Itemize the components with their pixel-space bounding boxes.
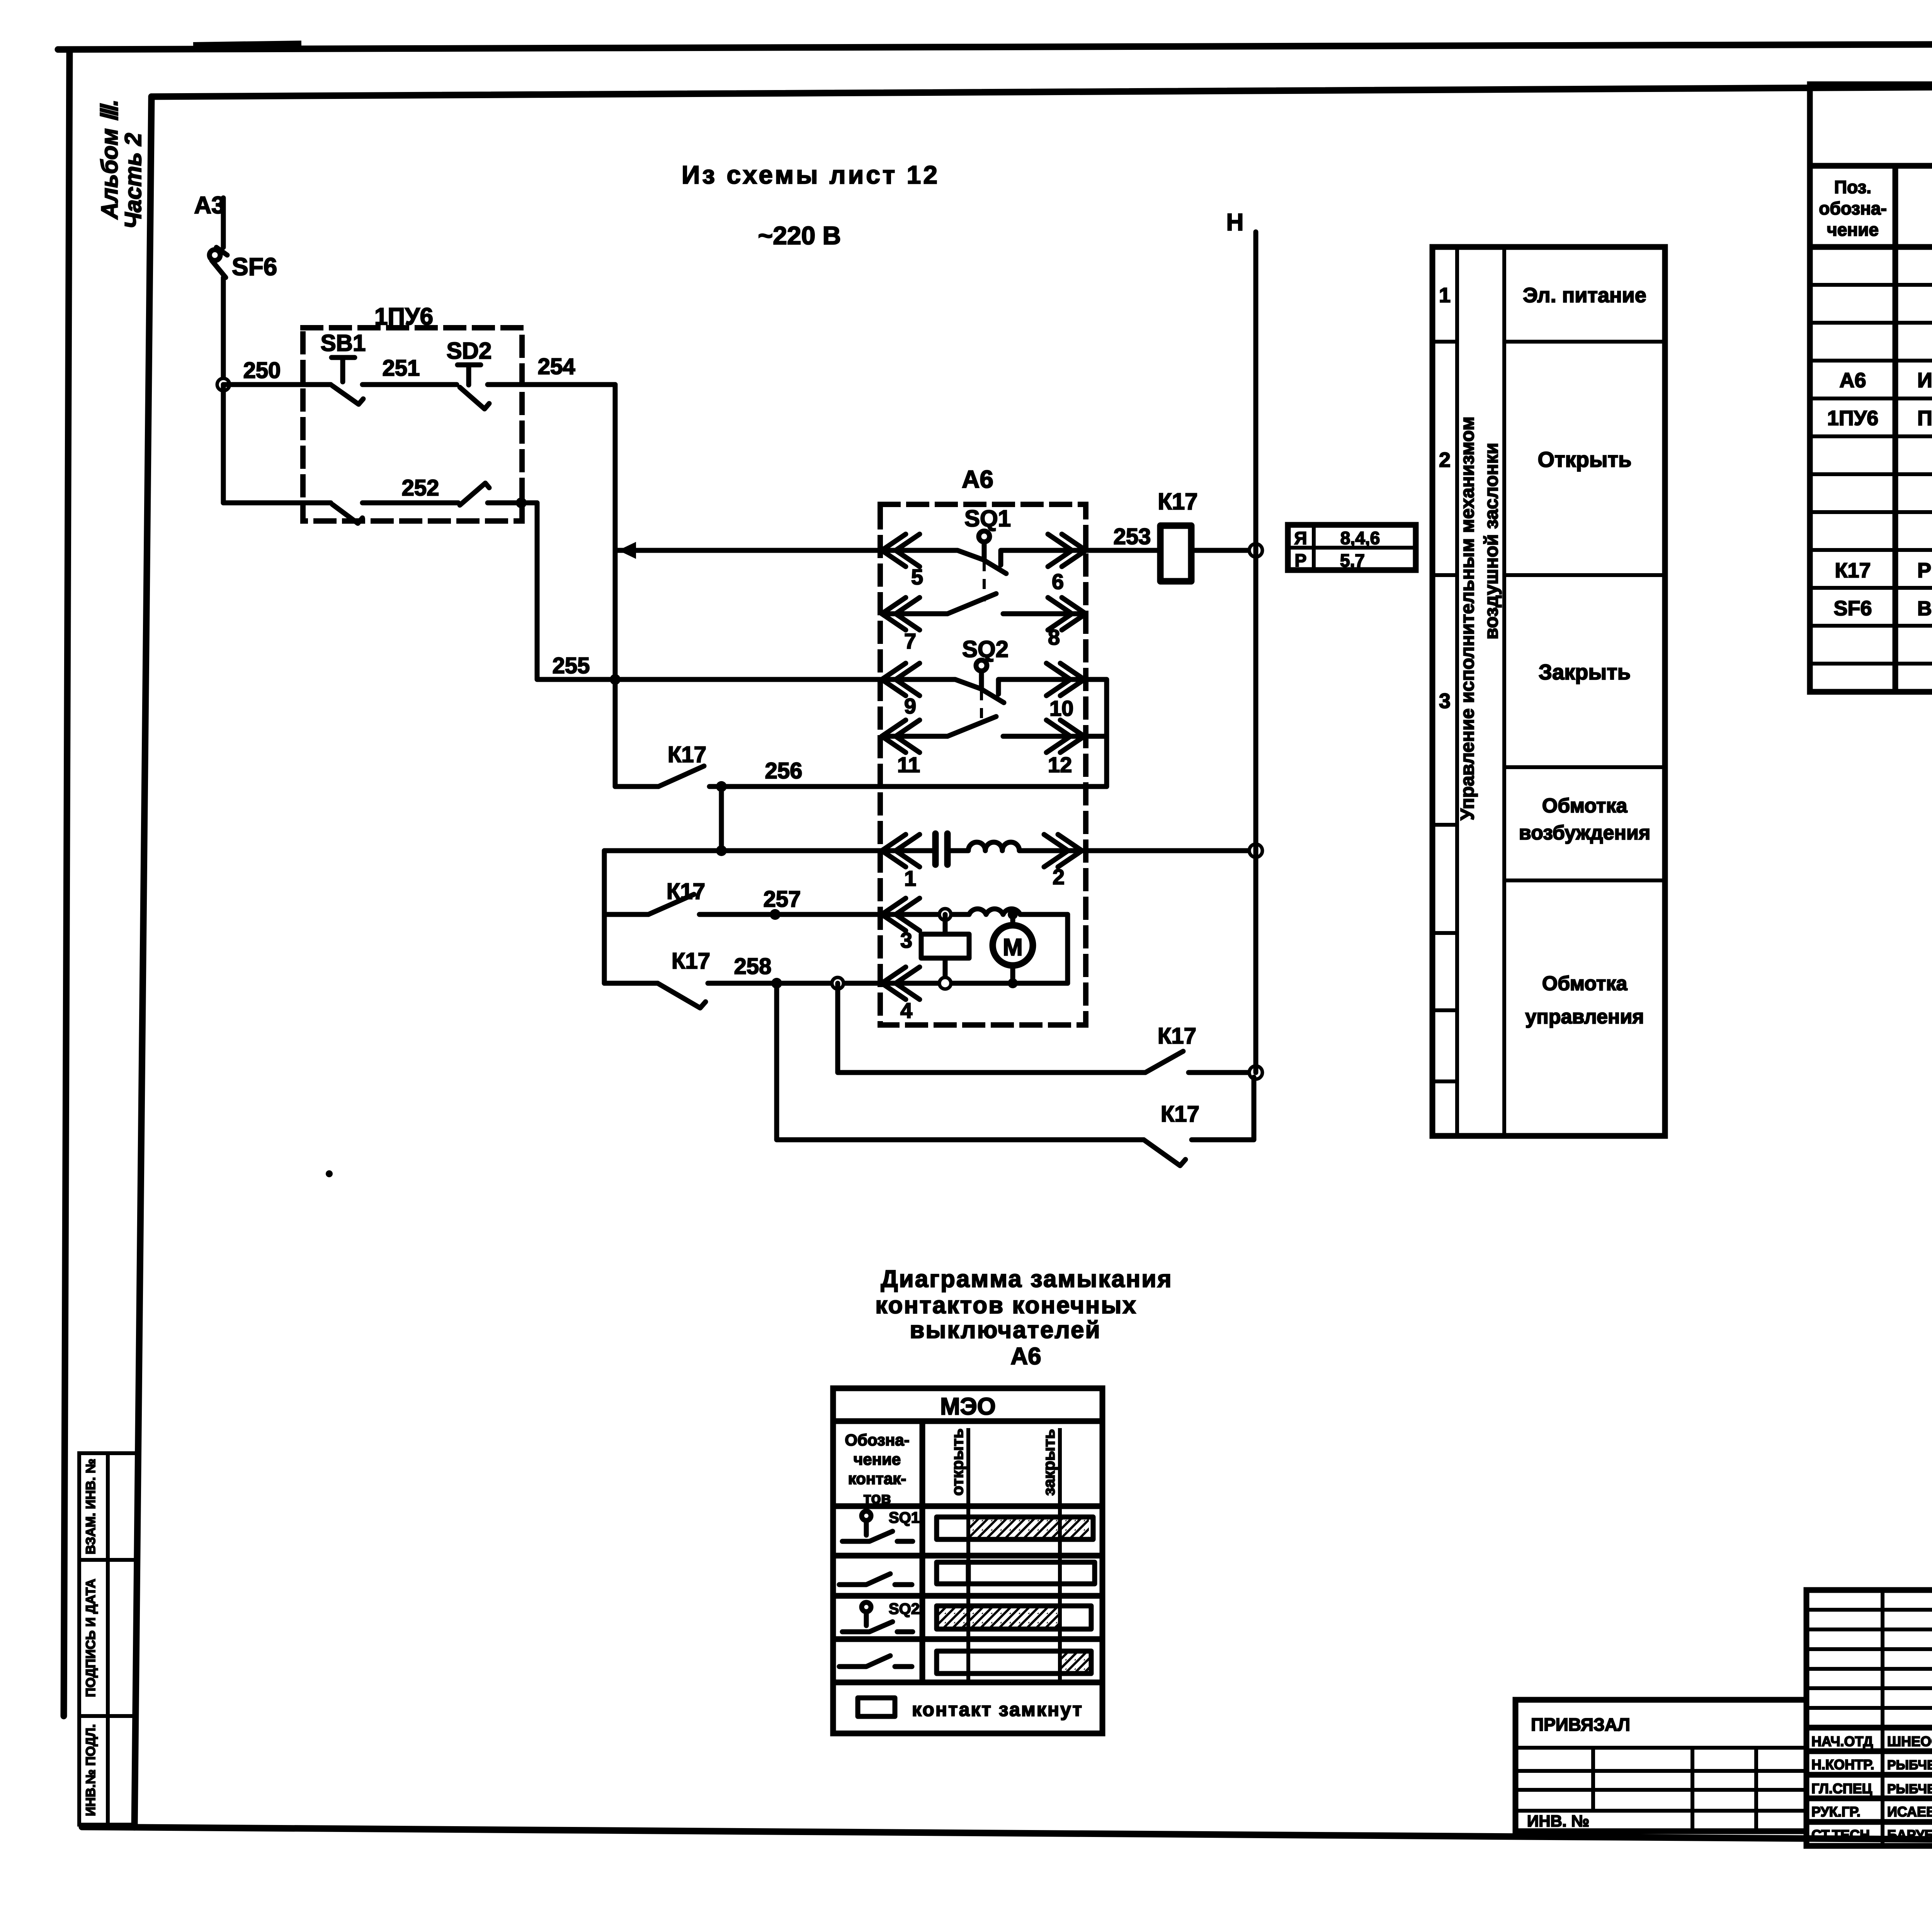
svg-text:8,4,6: 8,4,6 [1340, 528, 1380, 548]
svg-text:Обмотка: Обмотка [1542, 795, 1628, 817]
resistor R [921, 914, 969, 983]
svg-text:Эл. питание: Эл. питание [1523, 284, 1646, 307]
svg-text:ИСАЕВА: ИСАЕВА [1887, 1804, 1932, 1820]
wire 252 right [488, 501, 537, 506]
svg-text:SF6: SF6 [232, 253, 277, 281]
svg-text:Реле РПУ2-М36440УЗБ ~220 В: Реле РПУ2-М36440УЗБ ~220 В [1917, 559, 1932, 582]
svg-text:Обмотка: Обмотка [1542, 972, 1628, 995]
pin 10 chevron [1046, 663, 1084, 696]
svg-text:10: 10 [1049, 696, 1073, 720]
svg-text:РУК.ГР.: РУК.ГР. [1811, 1804, 1861, 1820]
svg-text:РЫБЧЕНКО: РЫБЧЕНКО [1887, 1782, 1932, 1796]
contact SB2 lower blade [460, 483, 489, 505]
svg-text:Альбом Ⅲ.: Альбом Ⅲ. [97, 99, 122, 220]
element list table (Перечень элементов) [1810, 84, 1932, 692]
inductor L row6 [969, 909, 1068, 914]
strip label Обмотка возбуждения [1519, 795, 1650, 844]
svg-text:Н.КОНТР.: Н.КОНТР. [1811, 1757, 1874, 1772]
contact K17 (wire 256) [658, 766, 704, 787]
wire drop row7 to K17 row A [838, 983, 1145, 1073]
wire row5 to N [1082, 848, 1255, 853]
motor loop right side [1065, 914, 1070, 983]
signature row Гл.спец [1811, 1779, 1932, 1796]
svg-text:закрыть: закрыть [1040, 1429, 1058, 1496]
column line закрыть [1058, 1430, 1062, 1682]
limit switch SQ1 actuator [979, 531, 990, 559]
frame inner top border [151, 83, 1932, 97]
contact SQ2 row4 blade [947, 717, 996, 736]
pushbutton SB1 (NC) [332, 358, 363, 404]
svg-text:9: 9 [904, 694, 916, 718]
contact symbol SQ2 row [842, 1600, 920, 1632]
wire 250 [223, 382, 331, 387]
svg-text:Выключатель А63-МУЗ Iр-6,3 А: Выключатель А63-МУЗ Iр-6,3 А Iотс.-1,5 I… [1917, 598, 1932, 620]
svg-text:1ПУ6: 1ПУ6 [374, 303, 433, 330]
svg-text:Р: Р [1295, 550, 1307, 570]
wire row4 right [1003, 734, 1107, 739]
wire 254 [488, 382, 615, 387]
svg-text:Диаграмма замыкания: Диаграмма замыкания [881, 1266, 1172, 1292]
svg-text:1: 1 [1439, 284, 1451, 307]
svg-text:256: 256 [765, 758, 803, 783]
scan speck [326, 1170, 333, 1177]
wire row7 left [604, 981, 658, 986]
svg-text:ШНЕОСОД: ШНЕОСОД [1887, 1733, 1932, 1749]
circuit breaker SF6 [209, 247, 227, 278]
strip label Обмотка управления [1525, 972, 1644, 1028]
pin 3 chevron [882, 898, 920, 931]
svg-text:Управление исполнительным: Управление исполнительным механизмом [1457, 417, 1478, 821]
node junction 257 [770, 909, 781, 920]
svg-text:Пост управления ПКЕ 222-2УЗ: Пост управления ПКЕ 222-2УЗ [1917, 407, 1932, 430]
svg-text:выключателей: выключателей [910, 1317, 1101, 1343]
wire row1 to box [615, 548, 882, 553]
node branch arrow row 1 [618, 542, 636, 559]
svg-text:БАРУБИН: БАРУБИН [1887, 1827, 1932, 1843]
wire 256 left [615, 784, 658, 789]
pin 12 chevron [1046, 720, 1084, 752]
closure bar row 3 [937, 1606, 1091, 1629]
svg-text:11: 11 [897, 752, 920, 777]
pin 1 chevron [882, 834, 920, 867]
svg-text:А6: А6 [962, 465, 993, 493]
pin 11 chevron [882, 720, 920, 752]
node motor bottom [1008, 978, 1018, 988]
wire 258 [708, 981, 1068, 986]
svg-text:обозна-: обозна- [1819, 198, 1887, 218]
SQ1 link rod (dash) [983, 561, 986, 601]
closure diagram table МЭО [833, 1388, 1102, 1733]
svg-text:250: 250 [243, 358, 281, 383]
svg-text:~220 В: ~220 В [758, 221, 841, 250]
svg-text:5: 5 [911, 565, 923, 589]
svg-text:4: 4 [900, 998, 912, 1023]
pushbutton SB2 (NC) [457, 365, 489, 409]
svg-text:воздушной заслонки: воздушной заслонки [1481, 443, 1502, 639]
contact SB1 lower blade [332, 504, 362, 523]
frame outer left border [64, 52, 70, 1716]
terminal table Я/Р [1288, 525, 1416, 570]
svg-text:1ПУ6: 1ПУ6 [1827, 407, 1878, 430]
svg-text:Н: Н [1226, 209, 1244, 236]
header Обозначение контактов [845, 1431, 909, 1507]
pin 4 chevron [882, 967, 920, 999]
wire 251 [362, 382, 457, 387]
svg-text:управления: управления [1525, 1006, 1644, 1028]
frame bottom border [82, 1827, 1932, 1844]
svg-text:ИНВ. №: ИНВ. № [1527, 1812, 1589, 1830]
control station box 1ПУ6 [303, 328, 522, 521]
svg-text:3: 3 [1439, 690, 1451, 713]
contact symbol row 4 [839, 1656, 912, 1667]
svg-text:255: 255 [553, 653, 590, 678]
svg-text:2: 2 [1053, 865, 1065, 889]
node junction 256 [716, 781, 727, 792]
SQ2 link rod (dash) [980, 690, 983, 724]
neutral bus N [1253, 232, 1259, 1073]
svg-text:А6: А6 [1839, 369, 1866, 392]
margin box Подпись и дата [79, 1560, 136, 1716]
contact K17 (row A) [1145, 1051, 1183, 1073]
svg-text:258: 258 [734, 954, 772, 979]
contact symbol row 2 [839, 1574, 912, 1585]
svg-text:К17: К17 [668, 742, 706, 767]
svg-text:К17: К17 [667, 879, 705, 904]
svg-text:Обозна-: Обозна- [845, 1431, 909, 1449]
column line открыть [966, 1430, 970, 1682]
svg-text:чение: чение [1827, 220, 1879, 240]
margin box Взам. инв. № [79, 1453, 136, 1560]
svg-text:ПРИВЯЗАЛ: ПРИВЯЗАЛ [1531, 1714, 1630, 1735]
svg-text:открыть: открыть [948, 1428, 966, 1496]
svg-text:254: 254 [538, 354, 575, 379]
svg-text:контак-: контак- [848, 1469, 906, 1488]
top border thick segment [193, 46, 301, 47]
wire row2 right [1003, 611, 1086, 616]
contact SQ2 row3 blade [882, 679, 1084, 703]
wire 253 [1086, 548, 1160, 553]
wire row5 (excitation winding) [604, 848, 933, 853]
header Поз. обозначение [1819, 177, 1887, 240]
contact K17 (row6) [648, 894, 694, 914]
node N row A junction [1249, 1066, 1262, 1079]
svg-text:К17: К17 [1158, 489, 1197, 514]
wire row2 stub [882, 611, 947, 616]
svg-text:SF6: SF6 [1833, 597, 1872, 620]
wire 252 drop to 255 [537, 503, 615, 679]
svg-text:Из схемы лист 12: Из схемы лист 12 [682, 160, 940, 189]
svg-text:контакт замкнут: контакт замкнут [912, 1699, 1083, 1720]
signature stamp grid [1806, 1590, 1932, 1846]
svg-text:5,7: 5,7 [1340, 550, 1365, 570]
svg-text:SD2: SD2 [447, 338, 492, 364]
node junction 252 [516, 497, 527, 508]
wire row6 inside box [882, 912, 969, 917]
pin 9 chevron [882, 663, 920, 696]
wire 252 middle [362, 501, 458, 506]
svg-text:Часть 2: Часть 2 [120, 133, 146, 229]
svg-text:ПОДПИСЬ И ДАТА: ПОДПИСЬ И ДАТА [83, 1579, 98, 1697]
svg-text:А6: А6 [1010, 1343, 1041, 1370]
node junction row7 a [771, 978, 782, 989]
wire row A to N [1189, 1070, 1255, 1075]
node N row5 junction [1249, 844, 1262, 857]
contact SQ1 row1 blade [882, 550, 1086, 574]
svg-text:257: 257 [764, 887, 801, 912]
node junction 255 [610, 674, 621, 685]
wire from A3 [221, 198, 226, 247]
node junction 250 [217, 378, 230, 391]
wire drop row7 to K17 row B [777, 983, 1144, 1140]
svg-text:1: 1 [904, 866, 916, 890]
svg-text:3: 3 [900, 928, 912, 952]
svg-text:SQ2: SQ2 [962, 636, 1009, 662]
node junction resistor top [939, 909, 951, 920]
limit switch SQ2 actuator [976, 660, 987, 688]
contact K17 (row7) [658, 983, 706, 1008]
svg-text:252: 252 [402, 475, 439, 501]
svg-text:SQ1: SQ1 [889, 1509, 920, 1526]
left rail rows 5-7 [602, 851, 607, 983]
contact K17 (row B) [1144, 1140, 1185, 1166]
relay coil K17 [1160, 526, 1191, 581]
svg-text:Открыть: Открыть [1538, 447, 1632, 472]
motor M [993, 914, 1033, 983]
svg-text:2: 2 [1439, 448, 1451, 472]
pin 8 chevron [1048, 598, 1086, 630]
pin 6 chevron [1048, 534, 1086, 567]
wire row B to N [1192, 1077, 1254, 1140]
svg-text:К17: К17 [1161, 1102, 1199, 1127]
node N row1 junction [1249, 544, 1262, 557]
svg-text:ВЗАМ. ИНВ. №: ВЗАМ. ИНВ. № [83, 1459, 98, 1554]
closure bar row 1 [937, 1517, 1093, 1539]
contact SQ1 row2 blade [947, 594, 996, 614]
title block main frame [1806, 1590, 1932, 1846]
node junction row5 [716, 845, 727, 856]
svg-text:возбуждения: возбуждения [1519, 822, 1650, 844]
svg-text:тов: тов [863, 1489, 891, 1507]
svg-text:Закрыть: Закрыть [1539, 660, 1631, 684]
svg-text:6: 6 [1052, 569, 1064, 594]
svg-text:ГЛ.СПЕЦ: ГЛ.СПЕЦ [1811, 1781, 1872, 1796]
svg-text:НАЧ.ОТД: НАЧ.ОТД [1811, 1733, 1873, 1749]
wire row3 to right rail [1084, 679, 1107, 787]
node motor top [1008, 909, 1018, 919]
svg-text:К17: К17 [1158, 1023, 1196, 1049]
signature row Нач.отд [1811, 1730, 1932, 1749]
svg-text:СТ.ТЕСН: СТ.ТЕСН [1811, 1827, 1870, 1843]
svg-text:М: М [1003, 934, 1023, 961]
wire 256 drop to row5 [719, 787, 724, 851]
wire row6 left [604, 912, 648, 917]
pin 7 chevron [882, 598, 920, 630]
capacitor C [935, 834, 947, 865]
contact symbol SQ1 row [842, 1509, 920, 1541]
wire 255 row3 [615, 677, 882, 682]
svg-text:251: 251 [383, 356, 420, 381]
node junction resistor bottom [939, 977, 951, 989]
legend symbol [858, 1698, 895, 1716]
svg-text:SQ1: SQ1 [964, 506, 1011, 531]
svg-text:А3: А3 [194, 192, 224, 219]
wire row4 stub [882, 734, 947, 739]
closure bar row 4 [937, 1651, 1091, 1674]
actuator box А6 (dashed) [880, 504, 1086, 1025]
svg-text:SB1: SB1 [321, 330, 366, 356]
svg-text:12: 12 [1048, 752, 1072, 777]
frame outer top border [58, 43, 1932, 49]
svg-text:К17: К17 [1835, 559, 1871, 582]
svg-text:SQ2: SQ2 [889, 1600, 920, 1617]
svg-text:чение: чение [854, 1450, 901, 1468]
pin 5 chevron [882, 534, 920, 567]
closure bar row 2 [937, 1562, 1095, 1584]
svg-text:РЫБЧЕНКО: РЫБЧЕНКО [1887, 1758, 1932, 1772]
margin box Инв. № подл. [79, 1716, 135, 1825]
wire 252 left [223, 501, 331, 506]
wire drop to 252 row [221, 385, 226, 503]
function strip table [1432, 247, 1665, 1136]
signature row Рук.гр [1811, 1803, 1932, 1820]
svg-text:Исполнительный механизм МЭО: Исполнительный механизм МЭО ~220В [1917, 369, 1932, 392]
svg-text:контактов конечных: контактов конечных [875, 1292, 1137, 1319]
node junction row7 b [832, 977, 844, 989]
svg-text:Я: Я [1294, 528, 1307, 548]
svg-text:253: 253 [1114, 524, 1151, 549]
wire 256 [709, 784, 1107, 789]
svg-text:ИНВ.№ ПОДЛ.: ИНВ.№ ПОДЛ. [83, 1724, 98, 1816]
wire SF6 to node 250 [221, 278, 226, 385]
frame inner left border [134, 97, 151, 1827]
wire coil to N [1191, 548, 1255, 553]
svg-text:8: 8 [1048, 625, 1060, 649]
signature row Н.контр [1811, 1756, 1932, 1772]
svg-text:МЭО: МЭО [940, 1393, 996, 1420]
svg-text:7: 7 [904, 629, 916, 653]
attachment table [1515, 1700, 1806, 1831]
wire 257 [699, 912, 882, 917]
pin 2 chevron [1044, 834, 1082, 867]
svg-text:К17: К17 [672, 948, 710, 974]
main feed bus 254 vertical [613, 385, 618, 787]
svg-text:Поз.: Поз. [1834, 177, 1871, 197]
signature row Ст.тесн [1811, 1826, 1932, 1843]
inductor L row5 [947, 842, 1082, 851]
